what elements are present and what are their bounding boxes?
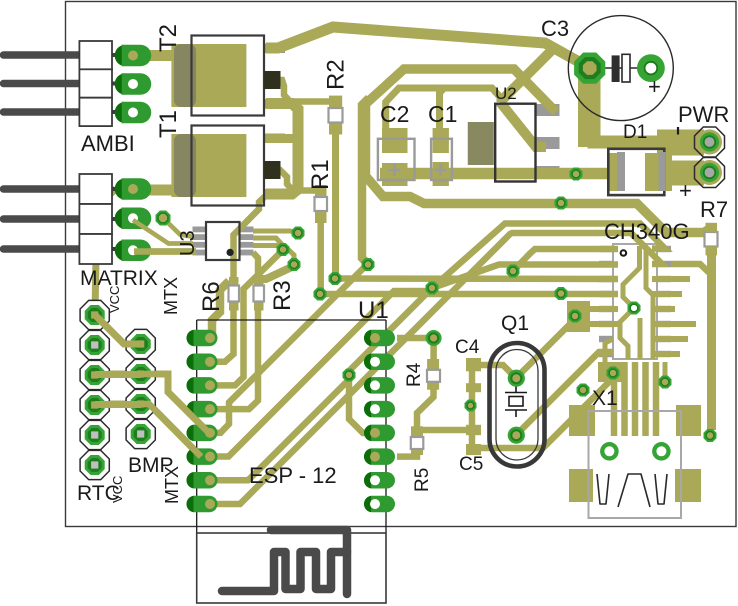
svg-text:X1: X1 (592, 387, 618, 410)
svg-text:PWR: PWR (678, 102, 729, 127)
svg-text:AMBI: AMBI (81, 131, 135, 156)
svg-text:C4: C4 (455, 337, 480, 358)
svg-text:R4: R4 (404, 362, 425, 387)
svg-text:U2: U2 (495, 84, 517, 103)
svg-text:RTC: RTC (77, 482, 120, 505)
svg-text:+: + (648, 74, 661, 99)
svg-text:MTX: MTX (161, 277, 181, 315)
svg-text:T2: T2 (155, 24, 182, 52)
svg-text:R6: R6 (198, 281, 225, 312)
svg-text:C5: C5 (459, 454, 483, 475)
svg-text:C2: C2 (380, 101, 409, 127)
svg-text:ESP - 12: ESP - 12 (249, 463, 337, 488)
svg-text:D1: D1 (623, 122, 647, 143)
svg-text:CH340G: CH340G (604, 219, 690, 244)
svg-text:R2: R2 (323, 59, 350, 90)
svg-text:Q1: Q1 (501, 312, 529, 335)
svg-text:R3: R3 (269, 280, 296, 311)
svg-text:+: + (679, 178, 692, 203)
svg-text:C1: C1 (428, 101, 457, 127)
svg-text:BMP: BMP (128, 454, 174, 477)
svg-text:U3: U3 (177, 230, 199, 256)
svg-text:T1: T1 (155, 110, 182, 138)
svg-text:VCC: VCC (107, 286, 122, 313)
svg-text:U1: U1 (358, 297, 389, 324)
svg-text:R5: R5 (412, 468, 433, 492)
svg-text:C3: C3 (541, 16, 569, 41)
svg-text:R1: R1 (307, 159, 334, 190)
svg-text:R7: R7 (700, 197, 728, 222)
